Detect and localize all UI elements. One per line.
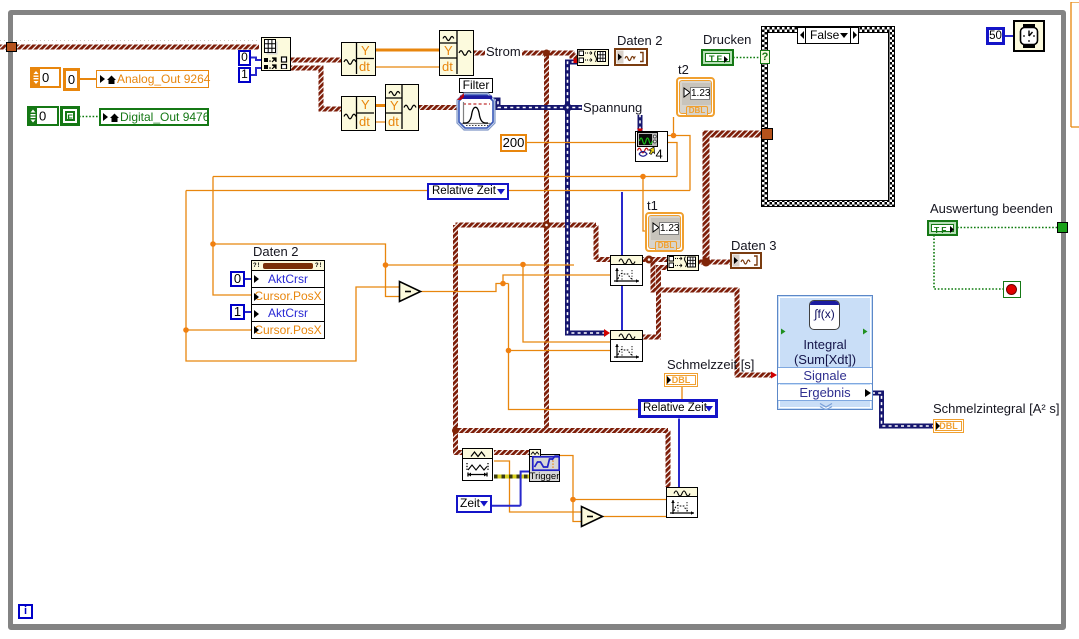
wire: node2 out to merge2 bbox=[643, 268, 667, 338]
svg-text:dt: dt bbox=[359, 59, 370, 74]
t1 indicator bbox=[645, 212, 684, 252]
wire: index out 2 to GWC2 bbox=[291, 68, 341, 109]
label Strom bbox=[485, 45, 522, 59]
wire: node4 to trigger bbox=[494, 450, 529, 455]
wire: y225 horizontal to node1 bbox=[456, 225, 611, 260]
label Schmelzzeit bbox=[667, 358, 754, 372]
wire: thick to case tunnel bbox=[706, 134, 761, 262]
constant 0 blue property bbox=[230, 271, 245, 287]
merge signals 1 bbox=[577, 49, 609, 66]
wire: branch to node4 bbox=[456, 431, 463, 453]
svg-text:dt: dt bbox=[359, 114, 370, 129]
wire: dynamic down to node2 bbox=[568, 108, 607, 334]
case ? terminal bbox=[760, 50, 770, 64]
wire: node1 out to merge2 and integral bbox=[643, 260, 771, 376]
property node Daten 2 bbox=[251, 260, 325, 339]
GWC2 get waveform components bbox=[341, 96, 376, 131]
red coercion marks bbox=[574, 59, 579, 64]
wire: orange chart out B bbox=[668, 143, 678, 177]
wire: Strom vertical bbox=[544, 53, 549, 430]
chart icon node bbox=[635, 131, 668, 162]
label Auswertung beenden bbox=[930, 202, 1053, 216]
wire: combo1 blue down bbox=[621, 192, 623, 330]
combo Relative Zeit 1 bbox=[427, 183, 509, 200]
wire: trigger out bbox=[560, 456, 666, 522]
Schmelzintegral DBL indicator bbox=[933, 419, 964, 433]
loop tunnel right green bbox=[1057, 222, 1068, 233]
label Spannung bbox=[582, 101, 643, 115]
svg-text:0: 0 bbox=[42, 70, 49, 85]
subtract node 2 bbox=[580, 505, 605, 528]
wire: node4 out to sub2 bbox=[494, 461, 581, 512]
wire: 200 to chart bbox=[526, 142, 635, 144]
combo Relative Zeit 2 bbox=[638, 399, 718, 418]
local variable Analog_Out 9264 bbox=[96, 70, 209, 88]
BW1 build waveform bbox=[439, 30, 474, 76]
wire: y430 horizontal to node3 bbox=[456, 431, 669, 488]
constant 1 blue top bbox=[238, 67, 251, 83]
wire: faint dotted guide above main wire bbox=[0, 40, 258, 42]
Filter express VI bbox=[456, 92, 496, 131]
wire: const0 to AktCrsr bbox=[245, 271, 253, 287]
svg-text:Y: Y bbox=[390, 98, 399, 113]
svg-text:Y: Y bbox=[361, 97, 370, 112]
label Daten 2 top bbox=[617, 34, 663, 48]
wire: const1 to AktCrsr2 bbox=[245, 304, 253, 320]
wire: merge2 out to Daten3 bbox=[699, 260, 730, 265]
wire: drucken dotted bbox=[733, 57, 761, 59]
svg-text:Y: Y bbox=[444, 43, 453, 58]
Drucken TF control bbox=[701, 49, 734, 66]
wire: 50 to wait bbox=[1004, 35, 1013, 37]
svg-text:dt: dt bbox=[442, 59, 453, 74]
wait ms node bbox=[1013, 20, 1045, 52]
wire: analog out orange bbox=[79, 78, 96, 80]
wire: sub1 out bbox=[421, 275, 638, 410]
constant 0 orange bbox=[63, 68, 80, 91]
wire: sub2 out bbox=[602, 516, 666, 518]
svg-text:4: 4 bbox=[656, 147, 663, 161]
wire: index out 1 to GWC1 bbox=[291, 58, 341, 63]
wire: BW1 out Strom to merge1 bbox=[474, 53, 577, 56]
subtract node 1 bbox=[398, 280, 423, 303]
node3 waveform scale bbox=[666, 487, 698, 518]
label t2 bbox=[678, 63, 689, 77]
wire: zeit blue bbox=[492, 472, 529, 506]
local variable Digital_Out 9476 bbox=[99, 108, 209, 126]
wire: auswertung dotted bbox=[934, 228, 1057, 290]
wire: combo2 blue down bbox=[678, 419, 680, 488]
Auswertung TF control bbox=[927, 220, 958, 236]
t2 indicator bbox=[676, 77, 715, 117]
boolean constant F bbox=[60, 106, 80, 126]
wire: left brown vertical bbox=[453, 225, 458, 431]
junction dots brown bbox=[543, 50, 550, 57]
label Schmelzintegral bbox=[933, 402, 1059, 416]
numeric control orange bbox=[30, 67, 61, 88]
Zeit combo bbox=[456, 495, 492, 513]
wire: Y thick orange GWC2-BW2 bbox=[376, 104, 385, 107]
node1 waveform scale bbox=[610, 255, 643, 286]
wire: orange W1 long bbox=[213, 177, 677, 343]
wire: orange W2 long bbox=[186, 191, 690, 362]
wire: Y thick orange GWC1-BW1 bbox=[376, 49, 439, 52]
case tunnel bbox=[761, 128, 773, 140]
index array node bbox=[261, 37, 291, 71]
label Drucken bbox=[703, 33, 751, 47]
label Daten 2 (property node) bbox=[253, 245, 299, 259]
node2 waveform scale bbox=[610, 330, 643, 362]
orange frame cut off right bbox=[1070, 2, 1079, 129]
numeric control green bbox=[27, 106, 59, 126]
constant 1 blue property bbox=[230, 304, 245, 320]
case structure frame bbox=[761, 26, 895, 207]
Filter label bbox=[459, 78, 493, 93]
loop iteration terminal i bbox=[18, 604, 33, 619]
wire: error dashed node4-trigger bbox=[494, 475, 529, 479]
wire: const 1 to index bbox=[251, 68, 261, 75]
svg-text:0: 0 bbox=[39, 109, 46, 124]
constant 0 blue top bbox=[238, 50, 251, 66]
Trigger express VI bbox=[529, 449, 561, 482]
constant 200 bbox=[500, 134, 527, 152]
wire: dynamic up to merge1 bbox=[568, 62, 578, 108]
wire: dynamic filter out bbox=[493, 100, 640, 131]
label t1 bbox=[647, 199, 658, 213]
Daten 2 waveform indicator bbox=[614, 48, 648, 66]
GWC1 get waveform components bbox=[341, 42, 376, 76]
orange junction dots bbox=[671, 133, 677, 139]
wire: orange chart out A bbox=[668, 117, 691, 191]
label Daten 3 bbox=[731, 239, 777, 253]
Integral express VI bbox=[777, 295, 873, 410]
wire: digital bool dotted bbox=[79, 116, 103, 118]
Daten 3 waveform indicator bbox=[730, 252, 762, 269]
loop tunnel left bbox=[6, 42, 17, 52]
merge signals 2 bbox=[667, 255, 699, 271]
wire: BW2 to filter bbox=[419, 105, 458, 110]
wire: schmelzzeit dbl feed bbox=[681, 386, 683, 399]
svg-text:dt: dt bbox=[388, 114, 399, 129]
node4 waveform subset bbox=[462, 448, 493, 481]
stop button bbox=[1003, 281, 1021, 298]
BW2 build waveform bbox=[385, 84, 419, 131]
Schmelzzeit DBL indicator bbox=[664, 373, 698, 387]
wire: const 0 to index bbox=[251, 58, 261, 61]
case selector False bbox=[797, 27, 859, 44]
constant 50 bbox=[986, 27, 1005, 45]
wire: main waveform array into loop bbox=[0, 45, 259, 50]
svg-text:Y: Y bbox=[361, 43, 370, 58]
wire: dynamic integral out bbox=[872, 393, 933, 426]
